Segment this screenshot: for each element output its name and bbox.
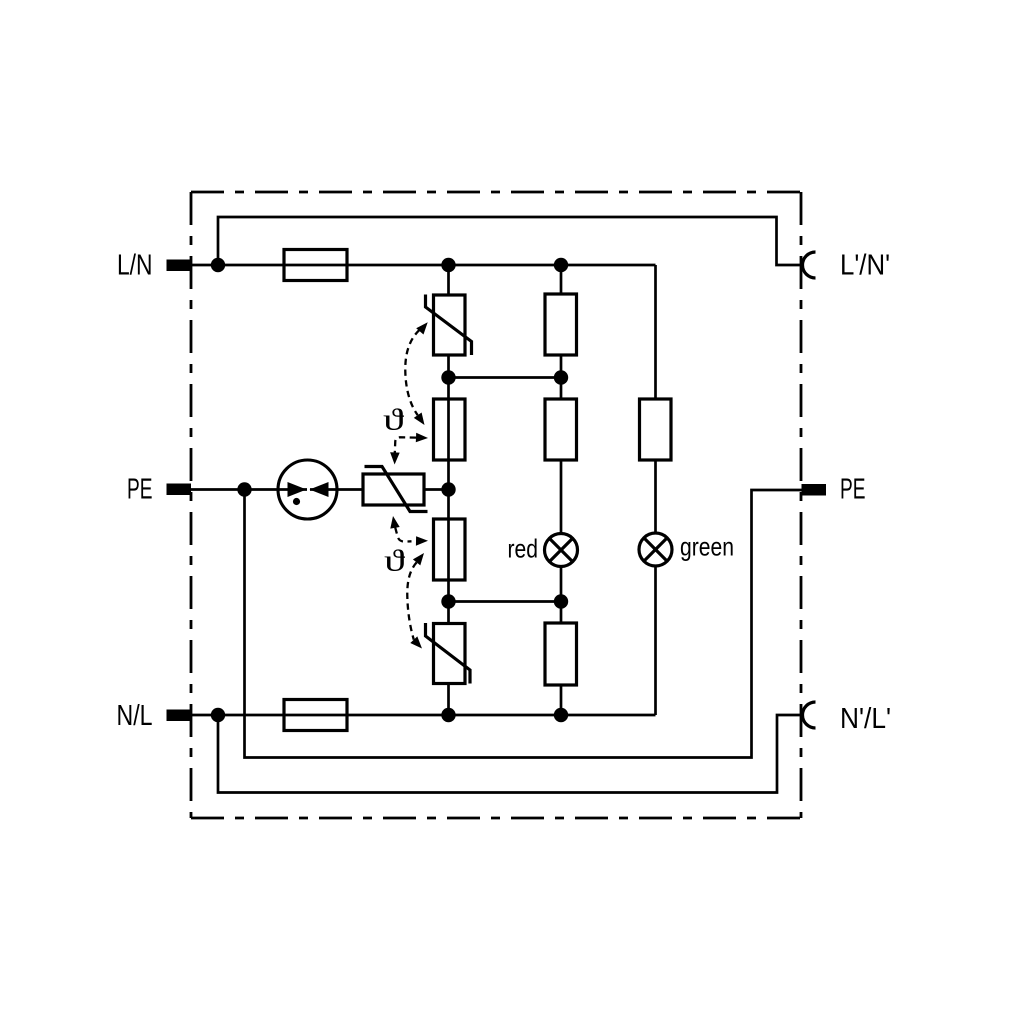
- thermal fuse disconnector D2: [434, 519, 466, 580]
- svg-text:N'/L': N'/L': [840, 703, 891, 735]
- svg-text:L'/N': L'/N': [840, 250, 890, 282]
- wire link row 2: [449, 600, 562, 603]
- wire L/N main line: [191, 264, 656, 267]
- enclosure dash-dot border: [191, 192, 801, 818]
- wire PE line left segment: [191, 488, 307, 491]
- svg-text:ϑ: ϑ: [384, 543, 406, 578]
- connector L'/N' (right plug contact): [803, 252, 816, 278]
- spark gap arrester G1: [278, 460, 337, 519]
- svg-text:PE: PE: [840, 474, 866, 506]
- terminal L/N (left input): [167, 260, 192, 272]
- wire PE line V3 to junction: [424, 488, 449, 491]
- lamp red: [545, 534, 578, 567]
- resistor R2: [545, 399, 577, 460]
- wire L/N to L'/N' bypass: [218, 217, 803, 265]
- svg-text:red: red: [508, 534, 539, 564]
- svg-text:N/L: N/L: [117, 700, 153, 732]
- wire red lamp column: [560, 265, 563, 715]
- junction dots: [211, 258, 568, 722]
- thermal arrow V1 to D1 (curved double arrow): [405, 322, 427, 425]
- wire PE to PE right: [245, 490, 802, 758]
- terminal PE (left input): [167, 484, 192, 496]
- resistor R3: [545, 623, 577, 685]
- lamp green: [639, 533, 672, 566]
- wire N/L to N'/L' bypass: [218, 715, 803, 793]
- wire varistor column: [447, 265, 450, 715]
- fuse F1 (top, on L/N): [284, 250, 347, 281]
- svg-text:ϑ: ϑ: [383, 402, 405, 437]
- varistor V1 (top): [426, 295, 472, 356]
- terminal N/L (left input): [167, 710, 192, 722]
- wire N/L main line: [191, 714, 656, 717]
- varistor V3 (horizontal, on PE): [363, 467, 428, 512]
- wire PE line right segment: [310, 488, 363, 491]
- resistor R1: [545, 294, 577, 355]
- wire green lamp column: [654, 265, 657, 715]
- wire link row 1: [449, 376, 562, 379]
- terminal PE (right output): [802, 484, 827, 496]
- thermal arrow V3 to D2 (bent double arrow): [390, 516, 428, 546]
- thermal fuse disconnector D1: [434, 399, 466, 460]
- svg-text:green: green: [680, 532, 734, 562]
- fuse F2 (bottom, on N/L): [284, 700, 347, 731]
- svg-text:PE: PE: [127, 474, 153, 506]
- varistor V2 (bottom): [426, 623, 471, 684]
- resistor R4: [640, 399, 672, 460]
- thermal arrow D1 to V3 (bent double arrow): [390, 433, 428, 465]
- svg-text:L/N: L/N: [117, 250, 153, 282]
- connector N'/L' (right plug contact): [803, 702, 816, 728]
- thermal arrow D2 to V2 (curved double arrow): [407, 553, 424, 649]
